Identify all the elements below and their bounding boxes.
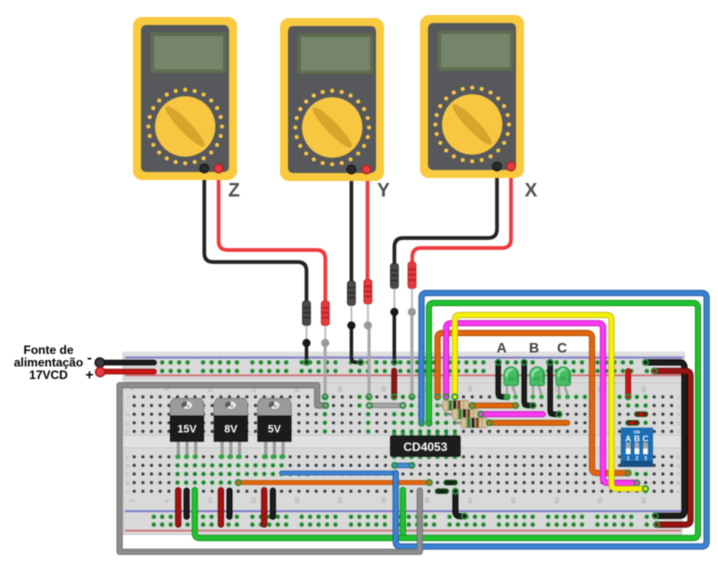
svg-text:60: 60 (642, 386, 648, 392)
LED B (green) (530, 367, 545, 399)
svg-text:Y: Y (377, 181, 390, 202)
svg-text:I: I (127, 404, 128, 409)
svg-text:J: J (127, 395, 129, 400)
svg-text:1: 1 (627, 456, 630, 462)
mini black jumper row J (438, 488, 447, 494)
wire magenta R2 to LED B (478, 412, 543, 417)
main breadboard (124, 382, 683, 535)
svg-text:H: H (677, 412, 680, 417)
svg-text:30: 30 (382, 386, 388, 392)
svg-text:5V: 5V (268, 424, 282, 436)
svg-text:35: 35 (425, 497, 431, 503)
svg-text:45: 45 (512, 497, 518, 503)
top rail holes (152, 360, 157, 365)
svg-text:2: 2 (635, 456, 638, 462)
bottom rail holes (152, 515, 157, 520)
svg-text:20: 20 (295, 497, 301, 503)
multimeter Z (133, 17, 237, 180)
svg-text:CD4053: CD4053 (403, 440, 447, 454)
svg-text:X: X (525, 181, 538, 202)
wire light gray jumper row B (367, 403, 406, 408)
svg-text:40: 40 (468, 497, 474, 503)
wire gray loop (board top-left around bottom) (120, 385, 420, 552)
svg-text:5: 5 (165, 499, 171, 502)
main board holes (133, 395, 136, 398)
svg-text:C: C (643, 434, 649, 443)
bottom black jumper 1 (184, 491, 190, 517)
wire blue loop (row H col30 around right+bottom to row D col33) (396, 293, 707, 547)
svg-text:Z: Z (228, 181, 240, 202)
center channel (124, 435, 683, 448)
wire black LED B cathode (522, 360, 536, 409)
voltage regulator VR1 (15V) (170, 398, 204, 459)
svg-text:G: G (126, 421, 130, 426)
svg-text:B: B (677, 481, 680, 486)
resistor R3 (455, 418, 489, 429)
svg-text:C: C (557, 340, 567, 356)
svg-text:B: B (529, 340, 539, 356)
svg-text:B: B (126, 481, 129, 486)
wire orange R3 to LED C (487, 420, 568, 425)
probe cable X red (408, 167, 511, 400)
bottom rail red line (125, 530, 681, 532)
probe cable Y black (347, 166, 363, 365)
svg-text:40: 40 (468, 386, 474, 392)
voltage regulator VR2 (8V) (214, 398, 248, 459)
LED A (green) (504, 367, 519, 399)
wire green loop (row D col34 around right+bottom) (195, 303, 698, 538)
red jumper rail to row A col57 (626, 371, 631, 400)
IC U1 CD4053 (390, 433, 460, 459)
mini red jumper row D (DIP) (628, 420, 637, 426)
svg-text:B: B (634, 434, 640, 443)
LED C (green) (556, 367, 571, 399)
wire yellow loop (row A col37 to DIP col59) (452, 315, 648, 491)
multimeter X (420, 15, 524, 178)
svg-text:3: 3 (644, 456, 647, 462)
breadboard top power rail strip (123, 352, 685, 380)
wire blue short jumper (392, 463, 415, 468)
svg-text:H: H (126, 412, 129, 417)
top rail red line (125, 374, 683, 376)
bottom red jumper 2 (218, 490, 224, 524)
wire blue long (lower board) (282, 471, 396, 476)
probe cable Y red (364, 166, 372, 400)
wire power positive (red) (96, 367, 155, 376)
svg-text:-: - (87, 350, 92, 366)
svg-text:F: F (677, 429, 680, 434)
svg-text:8V: 8V (224, 424, 238, 436)
wire orange R1 to LED A (470, 403, 519, 408)
probe cable Z red (219, 166, 330, 400)
svg-text:J: J (677, 395, 679, 400)
svg-text:25: 25 (338, 386, 344, 392)
svg-text:15: 15 (252, 497, 258, 503)
svg-text:E: E (126, 455, 129, 460)
svg-text:50: 50 (555, 497, 561, 503)
resistor R2 (446, 409, 480, 420)
wire orange loop (row A col35 to DIP col57) (435, 333, 631, 476)
svg-text:+: + (85, 367, 93, 383)
svg-text:55: 55 (598, 497, 604, 503)
resistor R1 (438, 400, 470, 411)
label Fonte de alimentacao 17VCD (14, 343, 83, 382)
wire black LED A cathode (496, 360, 510, 400)
svg-text:10: 10 (208, 497, 214, 503)
wire dark red rail-to-rail (right side) (652, 368, 691, 527)
wire black rail-to-rail (right side) (643, 360, 685, 519)
top rail blue line (125, 357, 683, 359)
wire magenta loop (row A col36 to DIP col58) (444, 323, 640, 485)
svg-text:I: I (678, 404, 679, 409)
svg-text:E: E (677, 455, 680, 460)
mini red jumper row C (DIP) (637, 411, 646, 417)
bottom red jumper 1 (175, 490, 181, 524)
svg-text:30: 30 (382, 497, 388, 503)
wire black LED C cathode (548, 360, 562, 417)
probe cable Z black (204, 168, 310, 365)
bottom rail blue line (125, 510, 681, 512)
svg-text:17VCD: 17VCD (29, 368, 68, 382)
bottom black jumper 2 (227, 491, 233, 517)
wire orange long (lower board) (236, 480, 432, 485)
wire power negative (black) (95, 358, 154, 367)
wire green vertical col31 to bottom (400, 490, 406, 538)
black L jumper to bottom rail (453, 489, 468, 519)
voltage regulator VR3 (5V) (258, 398, 292, 459)
mini black jumper row I (446, 480, 455, 486)
bottom red jumper 3 (261, 490, 267, 524)
DIP switch S1 (A B C / 1 2 3) (621, 428, 653, 467)
svg-text:15V: 15V (177, 424, 197, 436)
svg-text:60: 60 (642, 497, 648, 503)
maroon jumper rail to row A col30 (392, 371, 397, 400)
svg-text:1: 1 (130, 499, 136, 502)
multimeter Y (280, 18, 384, 181)
bottom black jumper 3 (270, 491, 276, 517)
svg-text:A: A (497, 340, 507, 356)
svg-text:G: G (677, 421, 681, 426)
svg-text:25: 25 (338, 497, 344, 503)
probe cable X black (390, 167, 497, 365)
svg-text:A: A (625, 434, 631, 443)
svg-text:F: F (126, 429, 129, 434)
